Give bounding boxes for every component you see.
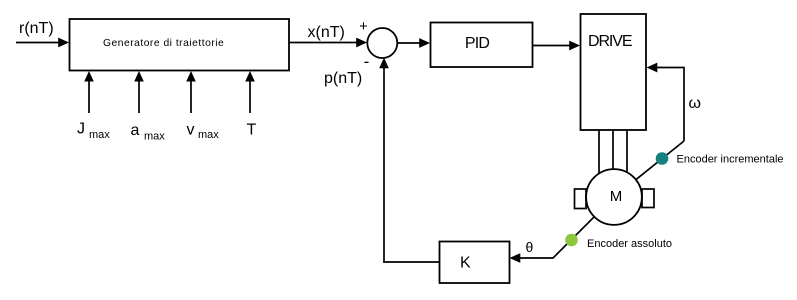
wire motor phase 2	[612, 130, 614, 172]
svg-text:+: +	[359, 19, 367, 35]
wire J max input arrow	[84, 71, 94, 113]
svg-text:r(nT): r(nT)	[19, 20, 54, 37]
wire T input arrow	[245, 71, 255, 113]
svg-text:ω: ω	[689, 95, 702, 112]
wire omega feedback from incremental encoder to DRIVE	[636, 63, 685, 180]
wire motor phase 1	[598, 130, 600, 176]
label J max	[77, 121, 110, 142]
wire v max input arrow	[186, 71, 196, 113]
svg-text:K: K	[460, 255, 471, 272]
svg-text:θ: θ	[526, 239, 534, 255]
block PID	[431, 23, 533, 68]
motor right mounting tab	[642, 189, 654, 208]
svg-text:PID: PID	[465, 35, 490, 52]
label a max	[131, 122, 166, 143]
wire x(nT) from trajectory block to summing junction	[289, 38, 367, 48]
svg-text:J: J	[77, 121, 85, 138]
svg-text:max: max	[89, 129, 110, 141]
svg-text:max: max	[144, 131, 165, 143]
wire PID to DRIVE	[533, 41, 580, 51]
summing junction	[367, 28, 397, 58]
block Generatore di traiettorie	[70, 19, 290, 71]
wire summing junction to PID	[397, 38, 430, 48]
svg-text:v: v	[187, 122, 195, 139]
svg-text:a: a	[131, 122, 140, 139]
wire absolute encoder to K	[510, 217, 595, 263]
svg-text:x(nT): x(nT)	[308, 24, 345, 41]
label v max	[187, 122, 220, 142]
wire a max input arrow	[134, 71, 144, 113]
svg-text:DRIVE: DRIVE	[588, 33, 632, 50]
wire r(nT) input with arrow into trajectory block	[16, 38, 69, 48]
svg-text:M: M	[610, 188, 623, 205]
svg-text:-: -	[364, 52, 370, 71]
svg-text:p(nT): p(nT)	[324, 70, 362, 87]
svg-text:max: max	[198, 129, 219, 141]
wire K output feedback to summing junction	[379, 58, 439, 263]
block DRIVE	[581, 14, 647, 130]
node absolute encoder (green dot)	[565, 234, 578, 247]
svg-text:Encoder assoluto: Encoder assoluto	[587, 238, 672, 250]
block K	[440, 242, 510, 284]
node incremental encoder (teal dot)	[656, 152, 669, 165]
motor M	[586, 169, 642, 225]
svg-text:T: T	[247, 122, 257, 139]
wire motor phase 3	[626, 130, 628, 176]
svg-text:Encoder incrementale: Encoder incrementale	[677, 154, 784, 166]
svg-text:Generatore di traiettorie: Generatore di traiettorie	[103, 38, 224, 49]
motor left mounting tab	[575, 189, 587, 209]
